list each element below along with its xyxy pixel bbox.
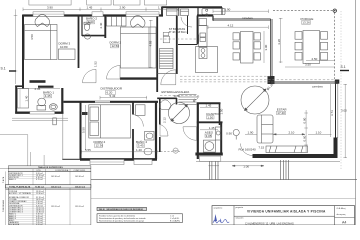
- dim 5.55 dorm4: [82, 151, 158, 153]
- wall estar east glazing: [335, 84, 337, 139]
- dim 1.10 estar: [308, 133, 332, 135]
- wall aseo right: [220, 122, 222, 155]
- pillow chair dorm2: [130, 16, 145, 28]
- corredera comedor north: [213, 16, 271, 21]
- window bottom bano4: [134, 160, 152, 165]
- signature blue: [213, 219, 229, 223]
- svg-text:P. ALTA: P. ALTA: [2, 176, 5, 183]
- bano2 basin: [85, 34, 91, 39]
- wall stairs right: [176, 16, 178, 75]
- WALLS: [12, 7, 339, 162]
- porch chairs left: [295, 32, 302, 40]
- terrace lines below bano1: [12, 117, 68, 119]
- svg-text:1.70: 1.70: [158, 5, 164, 9]
- svg-text:2.90: 2.90: [120, 5, 126, 9]
- pergola posts left pair: [209, 162, 220, 180]
- dim porch 3.20: [280, 18, 282, 63]
- wall top kitchen: [197, 14, 213, 16]
- terrace fence west: [62, 114, 64, 159]
- svg-text:0.90: 0.90: [226, 132, 232, 136]
- svg-text:ob.oq.orq: ob.oq.orq: [337, 213, 347, 216]
- window bano1 bottom: [30, 111, 55, 114]
- wall dorm3 bottom segment: [30, 80, 46, 83]
- kitchen island: [196, 47, 218, 73]
- dim 1.00 posts: [232, 165, 264, 167]
- svg-text:4.20 m2: 4.20 m2: [36, 224, 43, 225]
- wall dorm2 bottom: [120, 77, 158, 79]
- wall bottom facade dorm4 wing: [80, 158, 157, 161]
- svg-text:proyecto: proyecto: [236, 206, 245, 209]
- svg-text:1.10: 1.10: [316, 130, 322, 134]
- svg-text:2.50: 2.50: [312, 57, 318, 61]
- svg-text:1.40: 1.40: [25, 95, 29, 101]
- svg-text:3.00: 3.00: [341, 109, 347, 113]
- svg-text:105.30 m2: 105.30 m2: [51, 176, 60, 178]
- svg-text:1.00: 1.00: [243, 165, 249, 169]
- wall entrada east: [159, 99, 161, 125]
- svg-text:1.50: 1.50: [207, 115, 213, 119]
- svg-text:0.90: 0.90: [303, 117, 307, 123]
- tv bench estar: [266, 146, 308, 153]
- dim left vertical: [15, 9, 17, 84]
- wall dorm4-bano4 divider: [132, 103, 134, 115]
- svg-text:10.80: 10.80: [60, 45, 68, 49]
- dim chain estar vertical: [305, 110, 307, 152]
- svg-text:2.35: 2.35: [35, 87, 41, 91]
- dim 4.12 comedor: [208, 26, 268, 28]
- svg-text:11.30 m2: 11.30 m2: [36, 193, 44, 195]
- kitchen sink: [200, 33, 206, 37]
- ground line: [91, 179, 357, 181]
- wall bano2 right: [104, 16, 106, 39]
- window dorm4 top: [95, 100, 110, 102]
- lower faint line: [91, 198, 356, 200]
- sofa estar: [257, 115, 273, 143]
- tree T1: [168, 102, 189, 123]
- dim 1.90 sofa: [245, 133, 257, 135]
- svg-text:12.50: 12.50: [112, 44, 120, 48]
- corredera estar north: [271, 82, 338, 84]
- post porch NE: [333, 9, 336, 12]
- svg-text:3T 48 x 18 50cm: 3T 48 x 18 50cm: [169, 31, 187, 34]
- svg-text:0.60: 0.60: [303, 135, 307, 141]
- wall cuarto top: [197, 102, 221, 104]
- table verticals: [6, 169, 71, 225]
- svg-text:105.30 m2: 105.30 m2: [75, 186, 86, 188]
- comedor chairs left: [233, 33, 240, 40]
- svg-text:10.90: 10.90: [174, 94, 181, 98]
- overhang dashed lines courtyard: [160, 39, 335, 96]
- bed dorm3: [25, 25, 58, 60]
- dim top line: [23, 8, 178, 10]
- drain circle: [173, 148, 178, 153]
- vent pipes: [206, 9, 208, 11]
- comedor chairs right: [254, 33, 261, 40]
- planter above kitchen: [202, 9, 225, 15]
- door arc stair bottom: [161, 70, 176, 85]
- SURFACE TABLE bottom-left: [2, 166, 91, 226]
- stair bottom line: [157, 73, 177, 75]
- door arc bano4: [133, 115, 143, 127]
- wall cuarto-aseo block left: [197, 103, 199, 160]
- door arc dorm3: [83, 69, 97, 83]
- svg-text:3.73: 3.73: [330, 110, 334, 116]
- section alta rows: [9, 173, 84, 181]
- dim 3.73 estar: [330, 84, 332, 137]
- S1 ticks: [9, 70, 16, 72]
- wall bano1 bottom: [15, 111, 63, 113]
- wall estar east bottom: [334, 138, 338, 159]
- svg-text:3.30: 3.30: [88, 20, 94, 24]
- wall cuarto-aseo divider: [197, 121, 223, 123]
- plot rect bottom-left: [0, 135, 28, 169]
- svg-text:corredera: corredera: [242, 17, 253, 20]
- exterior steps entrada: [179, 95, 197, 105]
- svg-text:4.55: 4.55: [149, 40, 153, 46]
- wall aseo bottom: [195, 153, 222, 156]
- dim 1.50 cuarto vert: [219, 105, 221, 120]
- svg-text:13.26: 13.26: [302, 21, 310, 25]
- terrace edge line: [196, 160, 340, 162]
- window bottom dorm4: [90, 160, 124, 165]
- total alta row: [6, 185, 91, 188]
- kitchen fridge: [199, 19, 207, 26]
- comedor table: [241, 32, 254, 64]
- rotated dim texts: [25, 22, 334, 141]
- wall stair south: [157, 97, 177, 99]
- svg-text:C/ ALMENDROS 12, URB. LAS ENCI: C/ ALMENDROS 12, URB. LAS ENCINAS: [245, 222, 294, 225]
- wall bano4 right / wing east: [155, 103, 157, 160]
- wall bano1 left: [15, 86, 17, 114]
- wall dorm3 sliding overlap: [38, 86, 54, 88]
- svg-text:A4: A4: [342, 220, 346, 224]
- aseo shower: [216, 127, 222, 140]
- arquitecto box: [233, 206, 235, 225]
- wall distribuidor south: [64, 101, 96, 103]
- porch chairs right: [321, 32, 328, 40]
- window bano2: [92, 12, 103, 17]
- dashed courtyard south: [157, 150, 180, 152]
- svg-text:ENTRADA+ESCALERA: ENTRADA+ESCALERA: [162, 90, 190, 94]
- wall dorm3 right: [78, 16, 80, 69]
- wall comedor-porch divider glazing: [270, 19, 272, 83]
- post estar NE dark: [335, 80, 340, 84]
- svg-text:1.90: 1.90: [248, 130, 254, 134]
- svg-text:3.05: 3.05: [206, 134, 212, 138]
- svg-text:2.10: 2.10: [289, 130, 295, 134]
- svg-text:6.20: 6.20: [107, 91, 113, 95]
- svg-text:4.45: 4.45: [45, 94, 51, 98]
- tree T2: [241, 86, 269, 114]
- table column header: [8, 169, 91, 172]
- wall dorm4 top right part: [110, 101, 158, 103]
- svg-text:3.50: 3.50: [305, 62, 311, 66]
- svg-text:2.12: 2.12: [163, 117, 167, 123]
- door arc utility terrace: [181, 17, 192, 27]
- aseo washer: [203, 140, 215, 152]
- svg-text:105.30 m2: 105.30 m2: [75, 176, 84, 178]
- utility small boxes: [163, 32, 169, 35]
- svg-text:73.80 m2: 73.80 m2: [35, 186, 45, 188]
- svg-text:3.20: 3.20: [277, 39, 281, 45]
- door arc dorm2: [107, 66, 121, 80]
- porch dashed boundary: [273, 11, 335, 79]
- wall utility south: [178, 44, 198, 46]
- table body outline: [8, 171, 91, 225]
- svg-text:7.15: 7.15: [258, 145, 264, 149]
- wall dorm2 right: [156, 16, 158, 93]
- svg-text:3.90: 3.90: [264, 44, 268, 50]
- wall left facade: [22, 15, 24, 89]
- dim 5.50 dorm4 vertical: [84, 105, 86, 150]
- svg-text:135.20 m2: 135.20 m2: [75, 206, 84, 208]
- svg-text:1.52: 1.52: [94, 61, 98, 67]
- bano4 toilet: [144, 148, 152, 155]
- dim 3.00 estar east: [344, 84, 346, 158]
- svg-text:S.1: S.1: [341, 65, 346, 69]
- svg-text:2.90: 2.90: [225, 7, 231, 11]
- svg-text:PLA 160/240: PLA 160/240: [239, 147, 257, 151]
- wall utility divider: [187, 16, 189, 35]
- wall bano2 bottom: [82, 35, 105, 37]
- wall top facade bedrooms: [23, 14, 163, 16]
- door arc estar west: [241, 144, 253, 156]
- svg-text:17.40: 17.40: [277, 111, 285, 115]
- roof band top edge: [29, 0, 167, 5]
- wall dorm4 left: [80, 102, 82, 160]
- svg-text:B s1 (A2FL): B s1 (A2FL): [170, 219, 180, 222]
- desk dorm3: [59, 49, 76, 60]
- bano1 basin: [38, 98, 46, 106]
- svg-text:situación: situación: [236, 217, 244, 220]
- svg-text:4.75 m2: 4.75 m2: [36, 179, 43, 181]
- closet dorm2: [107, 17, 127, 27]
- svg-text:S.1: S.1: [1, 67, 6, 71]
- wall bano1 jog: [15, 85, 24, 87]
- svg-text:5.50: 5.50: [82, 127, 86, 133]
- svg-text:105.30 m2: 105.30 m2: [51, 186, 62, 188]
- svg-text:PLANTA BAJA: PLANTA BAJA: [2, 199, 5, 212]
- svg-text:4.12: 4.12: [228, 23, 234, 27]
- dim top comedor: [213, 10, 269, 12]
- ROOM LABELS: [43, 16, 323, 148]
- kitchen counter: [199, 26, 208, 47]
- chair entrada hall: [159, 100, 170, 109]
- dim texts: [1, 5, 348, 168]
- svg-text:1.45: 1.45: [87, 5, 93, 9]
- dim 2.10 estar: [273, 133, 305, 135]
- svg-text:3.45: 3.45: [138, 144, 144, 148]
- step below aseo: [199, 156, 220, 161]
- title right column: [334, 206, 336, 225]
- utility block top: [162, 6, 222, 8]
- bed dorm4: [89, 105, 131, 138]
- window dorm2: [126, 12, 159, 17]
- dim 4.55 dorm2 vertical: [150, 20, 152, 68]
- proyecto box: [234, 215, 335, 217]
- wall bano2 left: [81, 16, 83, 37]
- sheet right border: [355, 0, 357, 225]
- svg-text:Revestimientos de paredes y: Revestimientos de paredes y techos/suelo…: [99, 219, 144, 222]
- door arc entrada court: [160, 125, 168, 137]
- bano4 shower: [136, 105, 146, 116]
- shelf dorm4: [82, 112, 88, 115]
- svg-text:corredera: corredera: [312, 85, 323, 88]
- aseo pedestal sink: [233, 129, 239, 135]
- svg-text:1.45: 1.45: [206, 103, 212, 107]
- utility appliance boxes: [167, 9, 178, 16]
- svg-text:1.40: 1.40: [136, 148, 142, 152]
- kitchen stove dark block: [197, 35, 199, 44]
- porch table: [303, 31, 320, 64]
- TITLE BLOCK: [212, 206, 355, 226]
- svg-text:135.20 m2: 135.20 m2: [51, 206, 60, 208]
- svg-text:12.36: 12.36: [96, 144, 104, 148]
- FIRE NOTE BOX DB-SI: [97, 207, 183, 222]
- wall comedor SE corner block: [268, 76, 275, 84]
- dim cuarto 1.45: [200, 106, 218, 108]
- pillow chair dorm3: [35, 15, 49, 27]
- bed dorm2: [121, 27, 157, 68]
- dim right 3.50: [285, 66, 335, 68]
- bano1 toilet: [49, 104, 57, 110]
- svg-text:TOTAL PLANTA ALTA: TOTAL PLANTA ALTA: [9, 185, 31, 188]
- svg-text:4.50: 4.50: [30, 34, 34, 40]
- wall entrada jamb: [176, 98, 178, 105]
- svg-text:arquitecto: arquitecto: [214, 206, 224, 209]
- stairs interior: [160, 49, 174, 69]
- terrace post: [53, 118, 57, 125]
- dim 2.35 bano1: [17, 88, 60, 90]
- svg-text:3.90: 3.90: [47, 5, 53, 9]
- svg-text:O-B-Mnnj: O-B-Mnnj: [337, 208, 346, 210]
- wall bano1 right: [61, 88, 63, 114]
- pergola posts right pair: [281, 160, 289, 180]
- bano4 basin: [145, 132, 155, 141]
- dim 5.43 distribuidor: [100, 97, 147, 99]
- DIMENSIONS: [14, 8, 347, 167]
- section line S1 dashed: [340, 11, 342, 170]
- bano2 toilet: [84, 23, 89, 30]
- table header bar: [8, 166, 91, 169]
- wall cuarto right: [219, 103, 221, 125]
- section baja rows: [9, 191, 84, 226]
- shower bano1: [18, 89, 29, 109]
- svg-text:2.40: 2.40: [99, 22, 103, 28]
- window dorm3: [33, 12, 64, 17]
- svg-text:DB-SI SEGURIDAD EN CASO DE I: DB-SI SEGURIDAD EN CASO DE INCENDIO: [99, 208, 143, 211]
- dim right 2.50: [306, 60, 335, 62]
- wall kitchen west: [197, 16, 199, 45]
- dim aseo 1.45: [200, 129, 218, 131]
- windows top facade: [33, 12, 159, 165]
- dim 3.90 comedor vertical: [263, 31, 265, 63]
- svg-text:VIVIENDA UNIFAMILIAR AISLADA Y: VIVIENDA UNIFAMILIAR AISLADA Y PISCINA: [247, 209, 326, 213]
- FURNITURE: [25, 0, 328, 155]
- svg-text:5.55: 5.55: [85, 148, 91, 152]
- wall estar south: [253, 154, 338, 158]
- svg-text:ESCALERA: ESCALERA: [9, 223, 20, 225]
- svg-text:1.50: 1.50: [220, 108, 224, 114]
- door arc aseo west: [183, 127, 197, 141]
- leader lines table: [29, 152, 31, 167]
